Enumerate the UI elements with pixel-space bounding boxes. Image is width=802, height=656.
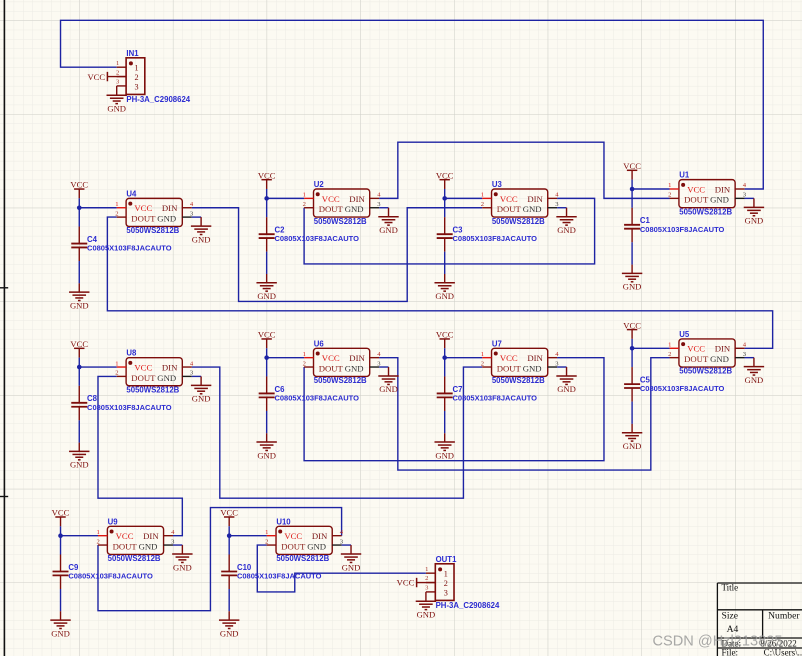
svg-text:VCC: VCC — [258, 170, 276, 180]
svg-text:C0805X103F8JACAUTO: C0805X103F8JACAUTO — [274, 393, 359, 402]
svg-text:CSDN @Hzl213825: CSDN @Hzl213825 — [653, 634, 783, 650]
svg-text:5050WS2812B: 5050WS2812B — [314, 376, 367, 385]
svg-text:GND: GND — [70, 460, 89, 470]
svg-text:DOUT: DOUT — [319, 204, 344, 214]
svg-text:U6: U6 — [314, 339, 325, 348]
svg-text:1: 1 — [444, 570, 448, 579]
svg-text:C0805X103F8JACAUTO: C0805X103F8JACAUTO — [68, 571, 153, 580]
svg-text:U5: U5 — [679, 330, 690, 339]
svg-text:GND: GND — [623, 282, 642, 292]
svg-text:2: 2 — [444, 579, 448, 588]
svg-text:2: 2 — [265, 538, 268, 545]
svg-text:GND: GND — [435, 450, 454, 460]
svg-text:VCC: VCC — [397, 578, 415, 588]
svg-text:GND: GND — [70, 300, 89, 310]
svg-text:1: 1 — [115, 201, 118, 208]
svg-text:5050WS2812B: 5050WS2812B — [276, 554, 329, 563]
svg-text:1: 1 — [668, 342, 671, 349]
svg-text:U9: U9 — [108, 517, 119, 526]
svg-text:C0805X103F8JACAUTO: C0805X103F8JACAUTO — [452, 234, 537, 243]
svg-text:DIN: DIN — [715, 344, 731, 354]
svg-text:1: 1 — [425, 566, 428, 573]
svg-text:DOUT: DOUT — [684, 195, 709, 205]
svg-text:C0805X103F8JACAUTO: C0805X103F8JACAUTO — [452, 393, 537, 402]
svg-text:3: 3 — [135, 82, 139, 91]
svg-text:GND: GND — [557, 225, 576, 235]
svg-text:VCC: VCC — [70, 180, 88, 190]
svg-text:VCC: VCC — [500, 194, 518, 204]
svg-text:GND: GND — [107, 103, 126, 113]
svg-text:VCC: VCC — [70, 339, 88, 349]
svg-text:U7: U7 — [492, 339, 502, 348]
svg-text:GND: GND — [557, 384, 576, 394]
svg-text:1: 1 — [265, 529, 268, 536]
svg-text:DOUT: DOUT — [684, 354, 709, 364]
svg-text:2: 2 — [303, 201, 306, 208]
svg-text:U8: U8 — [126, 349, 137, 358]
svg-text:VCC: VCC — [687, 344, 705, 354]
svg-text:5050WS2812B: 5050WS2812B — [126, 226, 179, 235]
svg-text:DOUT: DOUT — [497, 204, 522, 214]
svg-text:GND: GND — [523, 204, 542, 214]
svg-text:VCC: VCC — [436, 330, 454, 340]
svg-text:VCC: VCC — [258, 330, 276, 340]
svg-text:VCC: VCC — [87, 72, 105, 82]
svg-text:GND: GND — [745, 216, 764, 226]
svg-text:DIN: DIN — [527, 194, 543, 204]
svg-text:GND: GND — [710, 354, 729, 364]
svg-text:DIN: DIN — [715, 184, 731, 194]
svg-text:GND: GND — [192, 394, 211, 404]
svg-text:GND: GND — [623, 441, 642, 451]
svg-text:U1: U1 — [679, 171, 690, 180]
svg-text:GND: GND — [379, 384, 398, 394]
svg-text:GND: GND — [192, 234, 211, 244]
svg-text:U2: U2 — [314, 180, 325, 189]
svg-text:3: 3 — [444, 588, 448, 597]
svg-text:1: 1 — [303, 351, 306, 358]
svg-text:VCC: VCC — [687, 184, 705, 194]
svg-text:DIN: DIN — [162, 362, 178, 372]
svg-text:2: 2 — [668, 192, 671, 199]
svg-text:C0805X103F8JACAUTO: C0805X103F8JACAUTO — [640, 225, 725, 234]
svg-text:2: 2 — [668, 351, 671, 358]
svg-text:Size: Size — [722, 611, 739, 622]
svg-text:VCC: VCC — [500, 353, 518, 363]
svg-text:1: 1 — [97, 529, 100, 536]
svg-text:2: 2 — [425, 575, 428, 582]
svg-text:1: 1 — [303, 192, 306, 199]
svg-text:2: 2 — [481, 201, 484, 208]
svg-text:U10: U10 — [276, 517, 291, 526]
svg-text:2: 2 — [481, 360, 484, 367]
svg-text:VCC: VCC — [436, 170, 454, 180]
svg-text:DIN: DIN — [349, 194, 365, 204]
svg-text:DIN: DIN — [143, 531, 159, 541]
svg-text:5050WS2812B: 5050WS2812B — [679, 367, 732, 376]
svg-text:5050WS2812B: 5050WS2812B — [108, 554, 161, 563]
svg-text:Title: Title — [722, 582, 739, 592]
svg-text:IN1: IN1 — [126, 49, 139, 58]
svg-text:VCC: VCC — [220, 508, 238, 518]
svg-text:DIN: DIN — [349, 353, 365, 363]
svg-text:GND: GND — [379, 225, 398, 235]
svg-text:1: 1 — [135, 64, 139, 73]
svg-text:1: 1 — [481, 192, 484, 199]
svg-text:1: 1 — [481, 351, 484, 358]
svg-text:5050WS2812B: 5050WS2812B — [492, 217, 545, 226]
svg-text:U4: U4 — [126, 189, 137, 198]
svg-text:DIN: DIN — [527, 353, 543, 363]
svg-text:2: 2 — [135, 73, 139, 82]
svg-text:GND: GND — [173, 562, 192, 572]
svg-text:DOUT: DOUT — [497, 363, 522, 373]
svg-text:VCC: VCC — [322, 194, 340, 204]
svg-text:GND: GND — [710, 195, 729, 205]
svg-text:OUT1: OUT1 — [436, 555, 457, 564]
svg-text:VCC: VCC — [284, 531, 302, 541]
svg-text:1: 1 — [116, 60, 119, 67]
svg-text:GND: GND — [257, 291, 276, 301]
svg-text:GND: GND — [345, 363, 364, 373]
svg-text:5050WS2812B: 5050WS2812B — [126, 385, 179, 394]
svg-text:C0805X103F8JACAUTO: C0805X103F8JACAUTO — [87, 244, 172, 253]
svg-text:GND: GND — [417, 609, 436, 619]
svg-text:2: 2 — [97, 538, 100, 545]
svg-text:2: 2 — [115, 210, 118, 217]
svg-text:VCC: VCC — [52, 508, 70, 518]
svg-text:VCC: VCC — [623, 320, 641, 330]
svg-text:GND: GND — [157, 213, 176, 223]
svg-text:C0805X103F8JACAUTO: C0805X103F8JACAUTO — [640, 384, 725, 393]
svg-text:DOUT: DOUT — [131, 373, 156, 383]
svg-text:PH-3A_C2908624: PH-3A_C2908624 — [436, 601, 500, 610]
svg-text:C0805X103F8JACAUTO: C0805X103F8JACAUTO — [87, 403, 172, 412]
svg-text:VCC: VCC — [134, 362, 152, 372]
svg-text:1: 1 — [668, 182, 671, 189]
svg-text:2: 2 — [303, 360, 306, 367]
svg-text:U3: U3 — [492, 180, 503, 189]
svg-text:DIN: DIN — [312, 531, 328, 541]
svg-text:5050WS2812B: 5050WS2812B — [492, 376, 545, 385]
svg-text:C0805X103F8JACAUTO: C0805X103F8JACAUTO — [274, 234, 359, 243]
svg-text:GND: GND — [345, 204, 364, 214]
svg-text:GND: GND — [139, 541, 158, 551]
svg-text:GND: GND — [307, 541, 326, 551]
svg-text:C0805X103F8JACAUTO: C0805X103F8JACAUTO — [237, 571, 322, 580]
svg-text:VCC: VCC — [134, 203, 152, 213]
svg-text:DOUT: DOUT — [319, 363, 344, 373]
svg-text:GND: GND — [435, 291, 454, 301]
svg-text:DOUT: DOUT — [131, 213, 156, 223]
svg-text:DOUT: DOUT — [113, 541, 138, 551]
svg-text:GND: GND — [257, 450, 276, 460]
svg-text:GND: GND — [220, 628, 239, 638]
svg-text:5050WS2812B: 5050WS2812B — [314, 217, 367, 226]
svg-text:1: 1 — [115, 360, 118, 367]
svg-text:2: 2 — [116, 69, 119, 76]
svg-text:Number: Number — [768, 610, 800, 621]
svg-text:VCC: VCC — [322, 353, 340, 363]
svg-text:2: 2 — [115, 370, 118, 377]
svg-text:GND: GND — [157, 373, 176, 383]
svg-text:VCC: VCC — [623, 161, 641, 171]
svg-text:VCC: VCC — [116, 531, 134, 541]
svg-text:GND: GND — [523, 363, 542, 373]
svg-text:GND: GND — [51, 628, 70, 638]
svg-text:PH-3A_C2908624: PH-3A_C2908624 — [126, 95, 190, 104]
svg-text:DOUT: DOUT — [281, 541, 306, 551]
svg-text:GND: GND — [745, 375, 764, 385]
svg-text:5050WS2812B: 5050WS2812B — [679, 207, 732, 216]
svg-text:GND: GND — [342, 562, 361, 572]
svg-text:DIN: DIN — [162, 203, 178, 213]
